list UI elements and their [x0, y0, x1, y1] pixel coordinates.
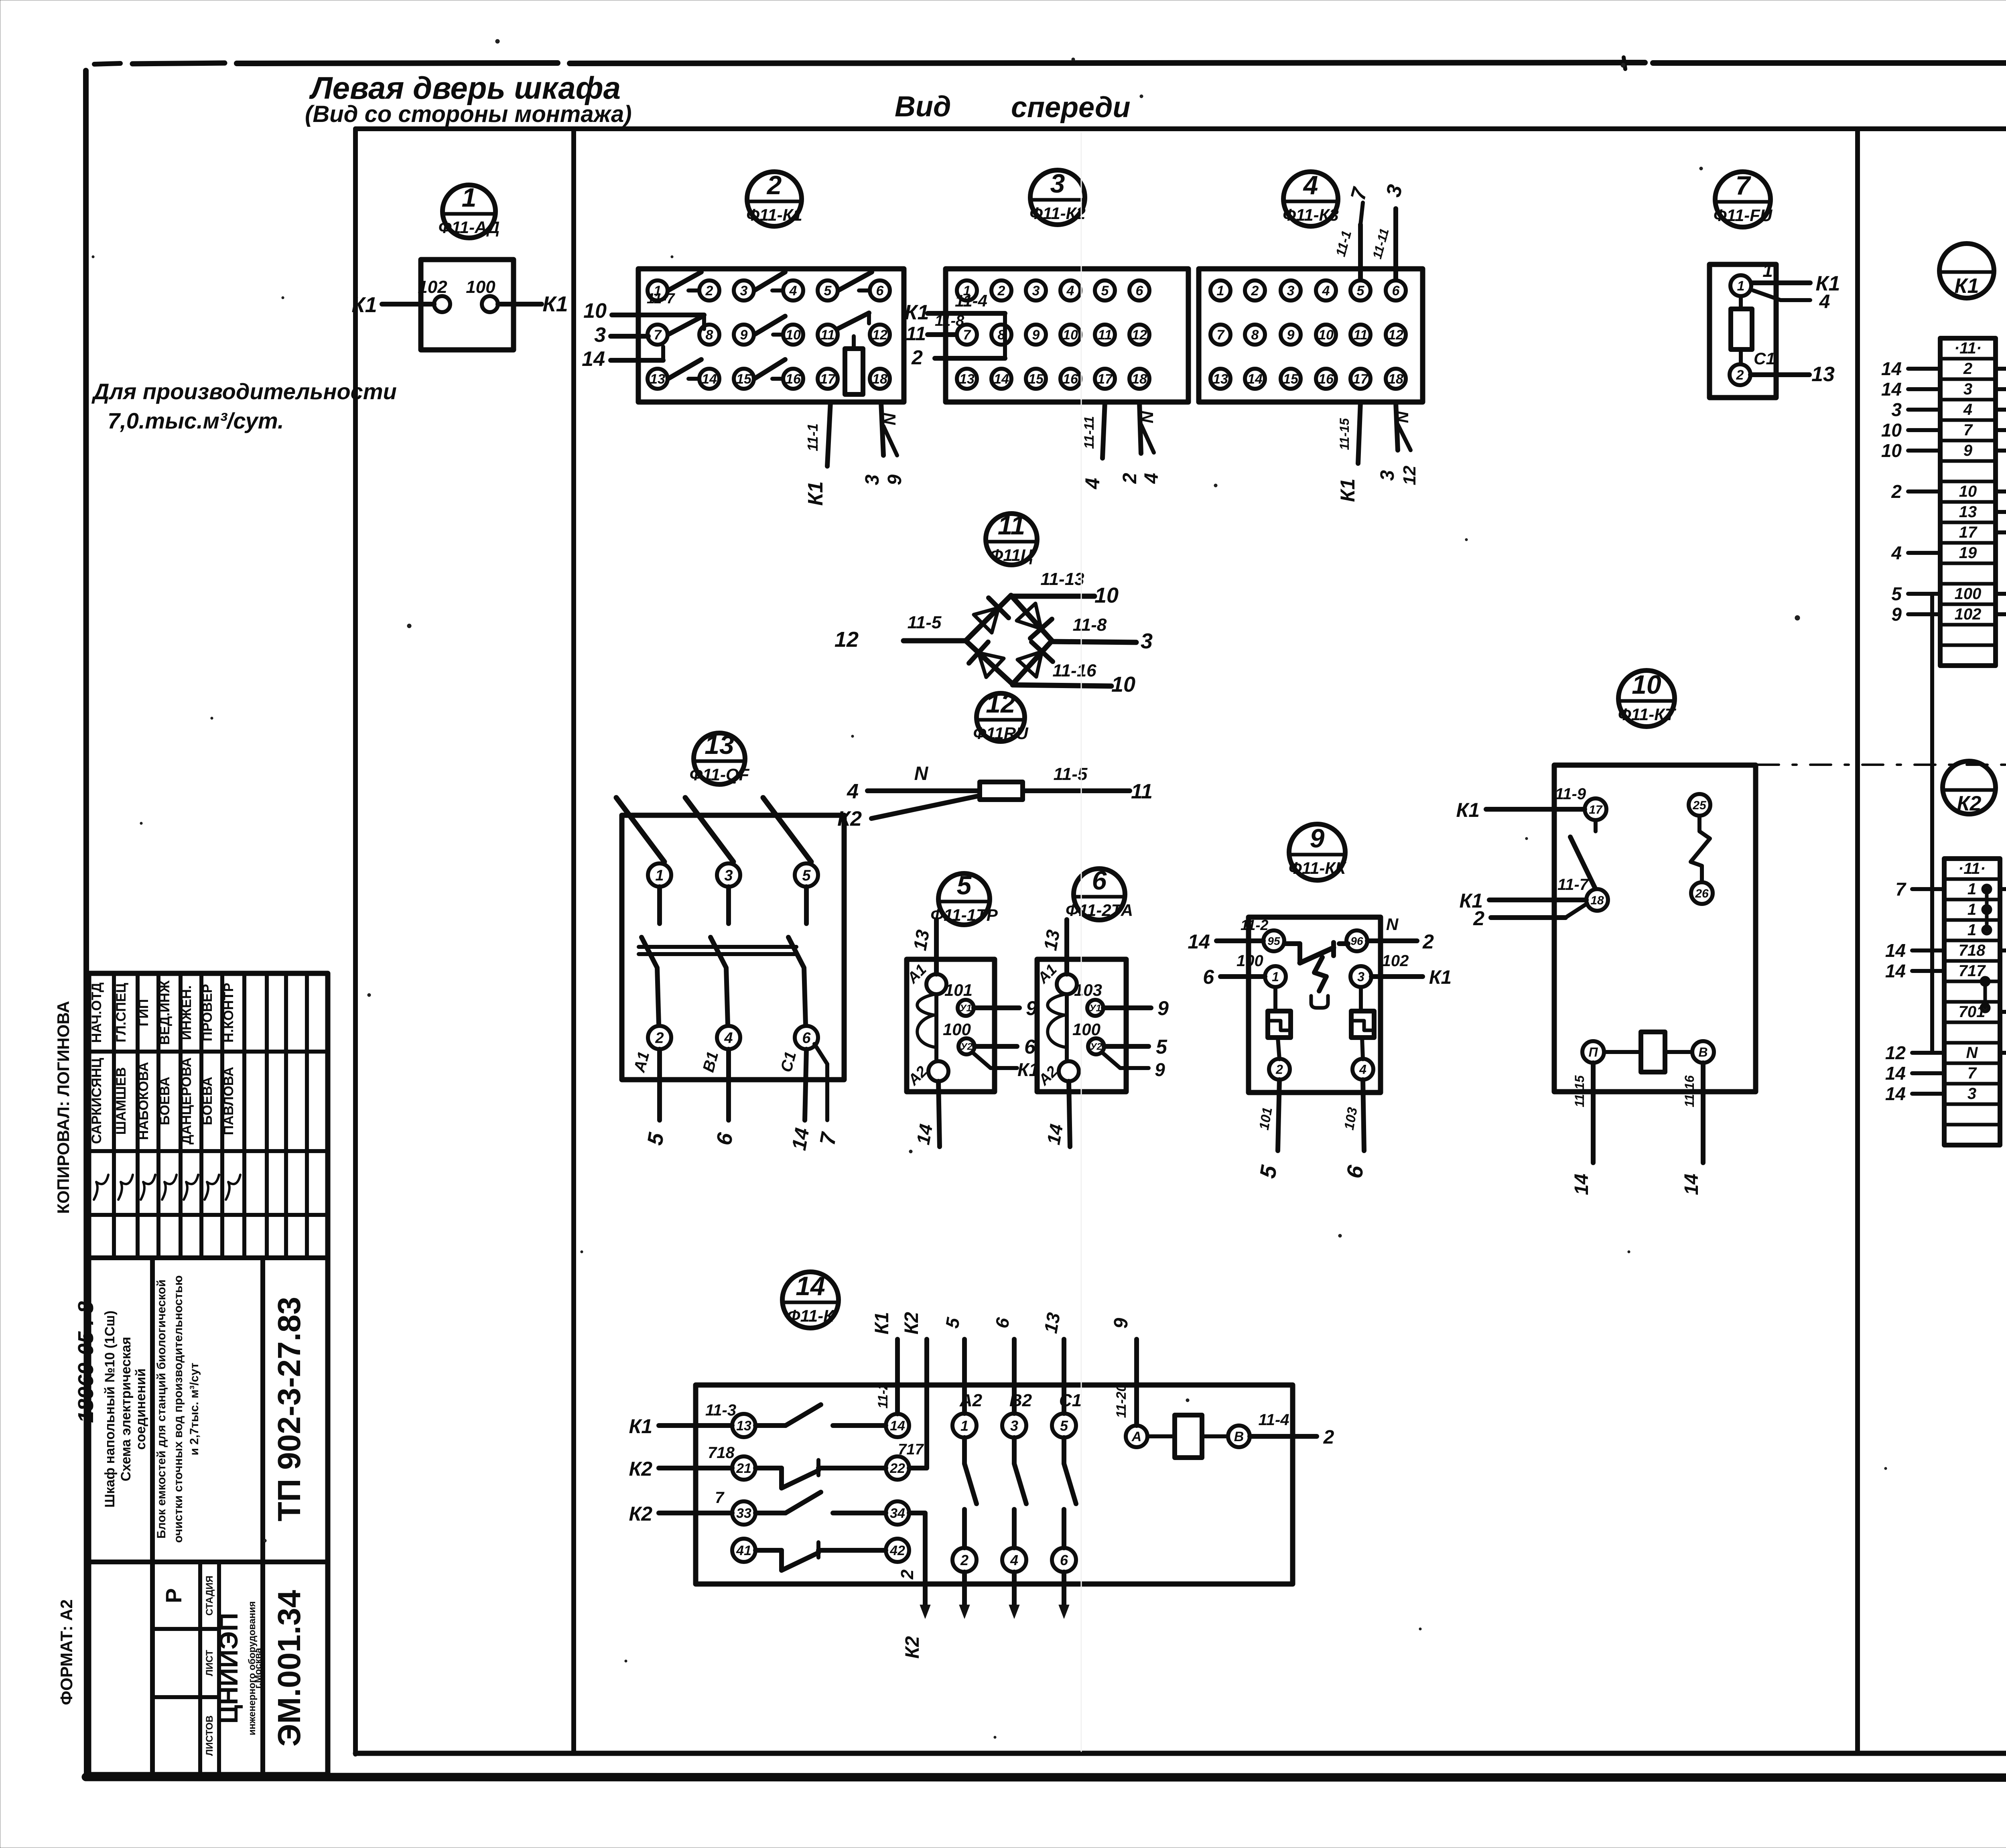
svg-text:1: 1: [1737, 278, 1745, 294]
svg-text:13: 13: [1213, 372, 1228, 387]
svg-text:2: 2: [1323, 1427, 1334, 1448]
svg-text:14: 14: [702, 372, 717, 387]
svg-text:13: 13: [1811, 363, 1835, 386]
svg-text:9: 9: [1032, 327, 1040, 343]
svg-text:ФОРМАТ: А2: ФОРМАТ: А2: [57, 1599, 76, 1705]
wire pin 2 down to 5: [1255, 1080, 1282, 1180]
component K3 relay block F11-K3 (item 4): [1199, 170, 1423, 402]
node terminal U2 of T2 current transformer F11-2TA (item 6): [1072, 1020, 1104, 1054]
node aux contact pin 42: [886, 1539, 909, 1562]
wire 7 to strip K2 row 1: [1895, 879, 1944, 900]
node coil terminal V of KT: [1692, 1041, 1714, 1063]
svg-text:9: 9: [1310, 823, 1325, 853]
svg-text:11: 11: [1098, 327, 1112, 343]
wire K1 into item 3: [905, 291, 1005, 358]
wire 4 to strip K1 row 19: [1891, 542, 1940, 563]
svg-text:6: 6: [1060, 1552, 1068, 1568]
node title block stage P: [161, 1588, 186, 1603]
wire breaker pin4 down to 6: [712, 1049, 737, 1147]
node breaker pole bottom pin 2: [648, 1026, 671, 1049]
node title front view: [895, 91, 1130, 124]
svg-text:3: 3: [1032, 283, 1040, 299]
node terminal A2 of T1 current transformer F11-1TR (item 5): [905, 1061, 948, 1089]
svg-text:НАБОКОВА: НАБОКОВА: [136, 1062, 151, 1140]
component diode D3: [969, 642, 1004, 677]
node pin 95 of KK: [1263, 930, 1284, 951]
node phase label B1: [700, 1050, 722, 1074]
svg-text:717: 717: [898, 1441, 924, 1458]
svg-text:2: 2: [911, 346, 923, 369]
svg-text:14: 14: [1885, 940, 1906, 961]
wire breaker pole blade 2: [685, 798, 733, 924]
svg-text:17: 17: [820, 372, 836, 387]
svg-text:26: 26: [1695, 887, 1709, 900]
svg-text:1: 1: [1762, 260, 1773, 281]
svg-text:2: 2: [1251, 283, 1259, 299]
node main pin 3: [1002, 1413, 1026, 1438]
svg-text:9: 9: [1111, 1318, 1132, 1328]
component coil of contactor: [1147, 1415, 1228, 1458]
svg-text:34: 34: [890, 1506, 905, 1521]
svg-text:3: 3: [1010, 1417, 1018, 1434]
node title block row Н.КОНТР ПАВЛОВА: [221, 983, 240, 1200]
svg-text:11-4: 11-4: [1258, 1411, 1289, 1429]
svg-text:13: 13: [1040, 1311, 1064, 1335]
svg-text:9: 9: [1963, 442, 1973, 459]
node terminal strip K2 reference: [1943, 761, 1996, 815]
svg-text:2: 2: [766, 170, 782, 200]
wire U2 of T2 current transformer F11-2TA (item 6) to 9: [1102, 1053, 1165, 1080]
component VD bridge rectifier F11Ts (item 11): [966, 510, 1052, 684]
svg-text:Ф11Ц: Ф11Ц: [990, 546, 1033, 565]
svg-text:К2: К2: [837, 807, 862, 831]
wire sheet outer bottom border: [86, 1777, 2006, 1778]
svg-text:N: N: [1386, 915, 1399, 934]
svg-text:4: 4: [1359, 1062, 1366, 1077]
svg-text:14: 14: [1571, 1174, 1592, 1195]
svg-text:г.Москва: г.Москва: [253, 1647, 264, 1688]
svg-text:К1: К1: [629, 1415, 652, 1438]
svg-text:ПРОВЕР: ПРОВЕР: [200, 984, 215, 1041]
svg-text:18: 18: [1388, 372, 1403, 387]
svg-text:11-3: 11-3: [705, 1401, 736, 1419]
svg-text:25: 25: [1692, 799, 1707, 812]
svg-text:11-2: 11-2: [875, 1382, 891, 1409]
node aux contact pin 21: [732, 1456, 755, 1480]
node margin note order number: [74, 1301, 98, 1423]
svg-text:4: 4: [1819, 291, 1830, 313]
svg-text:Ф11-К2: Ф11-К2: [1029, 204, 1086, 223]
wire contact 25-26 of KT: [1691, 816, 1710, 882]
svg-text:11-8: 11-8: [1073, 615, 1107, 635]
node jumper dots on K2 strip row 717: [1982, 978, 1989, 1011]
wire breaker tie bar: [639, 947, 796, 954]
svg-text:7: 7: [654, 327, 662, 343]
svg-text:102: 102: [1382, 952, 1409, 970]
wire breaker moving contact 3: [788, 937, 806, 1024]
svg-text:К1: К1: [1456, 799, 1480, 821]
wire main pole 1 of contactor: [941, 1316, 982, 1619]
wire 10 to strip K1 row 9: [1881, 440, 1940, 461]
svg-text:11-15: 11-15: [1572, 1075, 1587, 1107]
svg-text:4: 4: [1081, 478, 1104, 489]
wire U1 of T2 current transformer F11-2TA (item 6) to 9: [1103, 997, 1169, 1019]
svg-text:3: 3: [594, 323, 606, 347]
node pin 18 of KT: [1586, 889, 1608, 911]
wire K1 to pin 17: [1456, 785, 1586, 821]
svg-text:14: 14: [1881, 379, 1902, 400]
node aux contact pin 13: [732, 1414, 755, 1437]
wire long link from K1 strip row 100 to K2 strip row N: [1932, 594, 1944, 1053]
svg-text:6: 6: [802, 1030, 811, 1047]
wire K2 to pin 33: [629, 1489, 732, 1525]
svg-text:4: 4: [1322, 283, 1330, 299]
svg-text:К1: К1: [1429, 967, 1452, 988]
svg-text:100: 100: [943, 1020, 971, 1039]
svg-text:К1: К1: [804, 481, 827, 506]
svg-text:11: 11: [1131, 780, 1153, 803]
wire coil terminal A up to 9: [1111, 1318, 1137, 1426]
component K2 relay block F11-K2 (item 3): [946, 169, 1188, 402]
wire 14 to strip K1 row 3: [1881, 379, 1940, 400]
node title block row ГИП НАБОКОВА: [136, 999, 155, 1200]
wire 14 out of T2 current transformer F11-2TA (item 6): [1043, 1081, 1070, 1147]
svg-text:8: 8: [706, 327, 713, 343]
svg-text:96: 96: [1350, 935, 1363, 947]
svg-text:Шкаф напольный №10 (1Сш): Шкаф напольный №10 (1Сш): [102, 1310, 118, 1507]
svg-text:11-4: 11-4: [955, 291, 987, 310]
component KT time relay F11-KT (item 10): [1554, 670, 1756, 1092]
wire sheet outer left border: [86, 71, 87, 1778]
svg-text:С1: С1: [1754, 349, 1775, 368]
svg-text:4: 4: [847, 780, 859, 803]
svg-text:22: 22: [889, 1461, 905, 1476]
wire 4 N to resistor: [847, 763, 980, 803]
svg-text:9: 9: [1157, 997, 1169, 1019]
wire 7 from pin 5 of item 4 up: [1333, 185, 1372, 280]
wire 13 into T1 current transformer F11-1TR (item 5): [909, 920, 936, 974]
svg-text:А: А: [1131, 1429, 1142, 1444]
node jumper dots on K2 strip rows 1-1-1: [1983, 885, 1990, 934]
wire K2 to pin 21: [629, 1444, 735, 1480]
node aux contact pin 22: [886, 1456, 909, 1480]
component winding of T1 current transformer F11-1TR (item 5): [917, 994, 936, 1061]
wire 5 to strip K1 row 100: [1891, 583, 1940, 604]
svg-text:11-7: 11-7: [647, 290, 675, 307]
node terminal U2 of T1 current transformer F11-1TR (item 5): [943, 1020, 975, 1054]
svg-text:11-5: 11-5: [908, 613, 942, 632]
svg-text:1: 1: [1967, 880, 1976, 898]
svg-text:9: 9: [1287, 327, 1295, 343]
svg-text:11-1: 11-1: [804, 423, 821, 451]
wire breaker pole blade 1: [616, 798, 664, 924]
svg-text:14: 14: [1681, 1174, 1702, 1195]
svg-text:Для производительности: Для производительности: [91, 379, 397, 404]
svg-text:5: 5: [957, 870, 972, 900]
svg-text:13: 13: [736, 1418, 751, 1434]
wire strip K2 row N to 16 and K3: [2000, 1042, 2006, 1080]
wire 9 to strip K1 row 102: [1891, 604, 1940, 625]
svg-text:К2: К2: [901, 1312, 922, 1335]
svg-text:А2: А2: [959, 1391, 983, 1410]
component K1 relay block F11-K1 (item 2): [638, 170, 904, 402]
node breaker pole top pin 3: [717, 863, 740, 887]
component T2 current transformer F11-2TA (item 6): [1037, 865, 1133, 1092]
svg-text:11-8: 11-8: [935, 313, 964, 329]
node pin 25 of KT: [1689, 794, 1710, 816]
wire bridge right to 3: [1052, 615, 1153, 653]
svg-text:К2: К2: [629, 1503, 652, 1525]
svg-text:СТАДИЯ: СТАДИЯ: [204, 1576, 215, 1616]
svg-text:16: 16: [786, 372, 801, 387]
svg-text:К1: К1: [542, 292, 568, 316]
svg-text:12: 12: [1388, 327, 1403, 343]
wire terminal V down: [1681, 1063, 1703, 1195]
wire terminal 100 to K1: [498, 292, 568, 316]
node pin 17 of KT: [1585, 798, 1606, 820]
svg-text:19: 19: [1959, 544, 1977, 562]
node coil terminal A of contactor: [1126, 1426, 1147, 1447]
svg-text:7: 7: [1217, 327, 1225, 343]
wire strip K1 row 10 to 18: [1996, 481, 2006, 502]
component U1 pushbutton F11-AD: [421, 183, 514, 350]
svg-text:102: 102: [418, 277, 447, 297]
svg-text:3: 3: [1377, 470, 1398, 481]
node title block sheet number EM.001.34: [271, 1590, 307, 1746]
wire main pole 3 of contactor: [1040, 1311, 1082, 1619]
svg-text:718: 718: [1959, 942, 1986, 959]
wire fuse pin1 to 4: [1753, 290, 1830, 313]
svg-text:К2: К2: [902, 1636, 923, 1659]
svg-text:14: 14: [1247, 372, 1263, 387]
svg-text:8: 8: [1251, 327, 1259, 343]
wire strip K2 row 718 to 18: [2000, 940, 2006, 961]
svg-text:2: 2: [1891, 481, 1902, 502]
svg-text:В: В: [1698, 1045, 1708, 1060]
wire strip K2 row 701 to 18: [2000, 1001, 2006, 1022]
svg-text:Ф11-К3: Ф11-К3: [1283, 205, 1339, 224]
svg-text:2: 2: [997, 283, 1005, 299]
node terminal U1 of T2 current transformer F11-2TA (item 6): [1074, 981, 1103, 1016]
svg-text:100: 100: [1072, 1020, 1100, 1039]
component fuse body: [1731, 296, 1752, 364]
wire U2 of T2 current transformer F11-2TA (item 6) to 5: [1104, 1036, 1167, 1058]
wire breaker moving contact 1: [642, 937, 659, 1024]
svg-text:103: 103: [1074, 981, 1102, 999]
svg-text:К1: К1: [1336, 479, 1359, 502]
component coil of KT: [1604, 1032, 1692, 1072]
svg-text:14: 14: [1885, 961, 1906, 981]
wire 10 into item 2: [583, 299, 704, 329]
node pin 2 of fuse: [1730, 349, 1775, 385]
svg-text:6: 6: [1092, 865, 1107, 895]
svg-text:7: 7: [1967, 1064, 1977, 1082]
svg-text:К2: К2: [1957, 792, 1982, 815]
wire U2 of T1 current transformer F11-1TR (item 5) to 6: [975, 1036, 1036, 1058]
svg-text:Ф11-АД: Ф11-АД: [439, 218, 500, 237]
wire dash-dot fold line: [1758, 764, 2006, 766]
wire breaker pole blade 3: [763, 798, 811, 924]
svg-text:N: N: [1138, 410, 1157, 423]
svg-text:3: 3: [1287, 283, 1295, 299]
svg-text:11-5: 11-5: [1054, 764, 1088, 784]
svg-text:14: 14: [1043, 1123, 1067, 1146]
wire strip K1 row 4 to 18: [1996, 399, 2006, 420]
svg-text:15: 15: [736, 372, 752, 387]
svg-text:11-15: 11-15: [1337, 418, 1352, 450]
svg-text:1: 1: [960, 1417, 968, 1434]
svg-text:10: 10: [786, 327, 801, 343]
node pin 4 of KK: [1352, 1059, 1373, 1080]
component QF circuit breaker F11-QF (item 13): [622, 730, 844, 1080]
svg-text:14: 14: [788, 1126, 814, 1152]
component terminal strip K2: [1944, 859, 2000, 1145]
svg-text:16: 16: [1063, 372, 1078, 387]
node aux contact pin 41: [732, 1539, 755, 1562]
svg-text:14: 14: [1885, 1083, 1906, 1104]
svg-text:С1: С1: [1059, 1391, 1082, 1410]
svg-text:95: 95: [1267, 935, 1280, 947]
svg-text:У2: У2: [1090, 1042, 1102, 1052]
node pin 96 of KK: [1346, 930, 1367, 951]
svg-text:Ф11-КК: Ф11-КК: [1289, 859, 1347, 877]
svg-text:10: 10: [583, 299, 607, 323]
svg-text:ГЛ.СПЕЦ: ГЛ.СПЕЦ: [114, 983, 129, 1042]
wire strip K1 row 17 to 16: [1996, 522, 2006, 543]
node pin 3 of KK: [1350, 966, 1371, 987]
node aux contact pin 14: [886, 1414, 909, 1437]
svg-text:3: 3: [740, 283, 748, 299]
svg-text:N: N: [1966, 1044, 1978, 1062]
svg-text:2: 2: [1736, 368, 1744, 383]
wire 2 to strip K1 row 10: [1891, 481, 1940, 502]
svg-text:10: 10: [1881, 420, 1902, 441]
node note capacity: [91, 379, 397, 433]
node terminal A1 of T2 current transformer F11-2TA (item 6): [1034, 961, 1077, 994]
svg-text:7: 7: [715, 1489, 725, 1507]
wire main pole 2 of contactor: [991, 1316, 1032, 1619]
node title block row ГЛ.СПЕЦ ШАМШЕВ: [114, 983, 133, 1200]
wire aux contact 21-22: [755, 1460, 886, 1488]
svg-text:101: 101: [944, 981, 973, 999]
svg-text:Ф11-1ТР: Ф11-1ТР: [930, 906, 998, 924]
wire strip K2 row 1 to 19: [2000, 879, 2006, 900]
svg-text:17: 17: [1097, 372, 1113, 387]
svg-text:10: 10: [1094, 583, 1119, 607]
wire breaker moving contact 2: [711, 937, 728, 1024]
svg-text:ВЕД.ИНЖ: ВЕД.ИНЖ: [157, 980, 173, 1045]
svg-text:14: 14: [912, 1123, 936, 1146]
svg-text:6: 6: [876, 283, 884, 299]
svg-text:БОЕВА: БОЕВА: [200, 1077, 215, 1125]
wire pin 22 up to K2: [898, 1312, 927, 1468]
node pin 26 of KT: [1691, 882, 1713, 904]
node title block grid: [89, 973, 328, 1775]
svg-text:9: 9: [1155, 1059, 1165, 1080]
svg-text:42: 42: [889, 1543, 905, 1558]
svg-text:5: 5: [1101, 283, 1109, 299]
svg-text:В: В: [1234, 1429, 1244, 1444]
node phase label A1: [630, 1050, 653, 1074]
wire pin 34 down to K2: [897, 1513, 930, 1659]
svg-text:14: 14: [1885, 1063, 1906, 1084]
svg-text:4: 4: [789, 283, 797, 299]
svg-text:14: 14: [796, 1271, 825, 1301]
svg-text:спереди: спереди: [1011, 91, 1130, 124]
wire 12 to bridge left: [834, 613, 966, 652]
svg-text:2: 2: [1275, 1062, 1283, 1077]
svg-text:ЭМ.001.34: ЭМ.001.34: [271, 1590, 307, 1746]
svg-text:102: 102: [1955, 605, 1982, 623]
decorative fold line: [1081, 132, 1082, 1751]
svg-text:14: 14: [1188, 930, 1210, 953]
svg-text:17: 17: [1959, 524, 1978, 541]
svg-text:100: 100: [466, 277, 495, 297]
wire NC contact of KK: [1285, 942, 1348, 1008]
svg-text:ГИП: ГИП: [136, 999, 151, 1026]
svg-text:Схема электрическая: Схема электрическая: [118, 1337, 134, 1481]
svg-text:4: 4: [1141, 473, 1162, 484]
node coil terminal B of contactor: [1228, 1426, 1250, 1447]
wire strip K1 row 100 to 1: [1996, 583, 2006, 604]
svg-text:12: 12: [1400, 465, 1419, 485]
svg-text:6: 6: [1024, 1036, 1036, 1058]
node title block sheet name: [102, 1310, 148, 1507]
svg-text:100: 100: [1236, 952, 1263, 970]
wire from pin 18 of item 4 down to N 3 12: [1377, 402, 1419, 485]
wire 11 into item 3: [906, 313, 964, 345]
wire from pin 18 of item 2 down to N 3 9: [862, 402, 906, 485]
node terminal 102 of U1: [418, 277, 450, 312]
svg-text:12: 12: [834, 628, 859, 652]
svg-text:соединений: соединений: [133, 1369, 148, 1450]
svg-text:7: 7: [1736, 171, 1752, 200]
svg-text:41: 41: [736, 1543, 751, 1558]
svg-text:18969-05 . 8: 18969-05 . 8: [74, 1301, 98, 1423]
svg-text:4: 4: [1010, 1552, 1018, 1568]
component heater element right: [1351, 987, 1374, 1059]
node title block row НАЧ.ОТД САРКИСЯНЦ: [89, 983, 108, 1200]
wire 14 to pin 95: [1188, 917, 1268, 953]
svg-text:У2: У2: [960, 1042, 973, 1052]
wire 14 to strip K2 row 718: [1885, 940, 1944, 961]
svg-text:1: 1: [1967, 901, 1976, 918]
svg-text:5: 5: [802, 867, 811, 884]
wire pin 96 to 2: [1367, 915, 1434, 953]
wire K1 to terminal 102: [351, 293, 434, 317]
svg-text:2: 2: [1422, 930, 1434, 953]
svg-text:Ф11-2ТА: Ф11-2ТА: [1066, 901, 1133, 920]
svg-text:К1: К1: [1955, 274, 1979, 298]
svg-text:Н.КОНТР: Н.КОНТР: [221, 983, 236, 1042]
svg-text:10: 10: [1632, 670, 1661, 699]
svg-text:4: 4: [724, 1030, 733, 1047]
wire inner drawing frame: [355, 129, 2006, 1754]
wire 3 to strip K1 row 4: [1891, 399, 1940, 420]
svg-text:12: 12: [1885, 1042, 1906, 1063]
wire breaker pin2 down to 5: [643, 1049, 668, 1147]
svg-text:10: 10: [1959, 483, 1977, 500]
svg-text:(Вид со стороны монтажа): (Вид со стороны монтажа): [305, 101, 632, 127]
svg-text:5: 5: [824, 283, 832, 299]
svg-text:3: 3: [1141, 629, 1153, 653]
svg-text:К1: К1: [871, 1312, 893, 1334]
svg-text:П: П: [1588, 1045, 1598, 1060]
svg-text:·11·: ·11·: [1954, 339, 1982, 357]
node terminal 100 of U1: [466, 277, 498, 312]
component coil inside item 2: [845, 336, 863, 394]
wire strip K1 row 2 to 18: [1996, 358, 2006, 379]
